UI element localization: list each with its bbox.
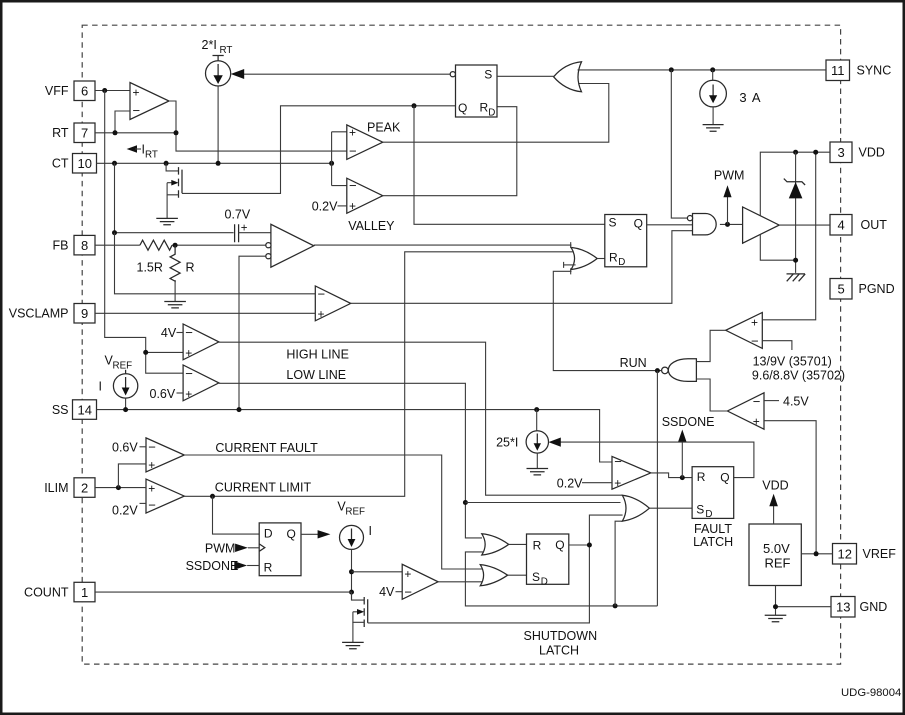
svg-text:CURRENT FAULT: CURRENT FAULT (215, 441, 318, 455)
node COUNT pin junction (349, 590, 354, 595)
svg-text:+: + (404, 567, 411, 581)
wire 4.5V output to nand (696, 379, 727, 411)
svg-text:13: 13 (836, 600, 850, 615)
wire G3 output to latch SD (508, 574, 527, 576)
svg-text:−: − (614, 454, 622, 469)
wire COUNT pin (95, 591, 352, 593)
svg-text:S: S (484, 67, 492, 81)
svg-text:UDG-98004: UDG-98004 (841, 687, 901, 699)
zener diode D1 (784, 179, 805, 199)
svg-text:LATCH: LATCH (539, 644, 579, 658)
svg-text:GND: GND (860, 600, 888, 614)
node VREF junction (814, 551, 819, 556)
svg-text:+: + (349, 125, 356, 139)
svg-text:0.6V: 0.6V (150, 387, 176, 401)
wire PWM latch Q to AND (647, 224, 693, 226)
svg-text:−: − (318, 286, 326, 301)
wire G2 lower input from RUN net (465, 552, 657, 606)
op-amp U3 error amplifier (266, 224, 314, 267)
svg-text:0.6V: 0.6V (112, 441, 138, 455)
node CT-mosfet junction (164, 161, 169, 166)
wire 13/9V - stub (762, 341, 792, 350)
svg-text:−: − (133, 103, 141, 118)
svg-text:HIGH LINE: HIGH LINE (286, 348, 349, 362)
current source VREF I (soft start charge) (99, 354, 138, 410)
svg-text:SSDONE: SSDONE (662, 415, 715, 429)
svg-text:R: R (480, 100, 489, 114)
svg-text:PGND: PGND (859, 282, 895, 296)
svg-text:6: 6 (81, 84, 88, 99)
wire zener branch (795, 152, 797, 273)
node latch-Q net junction (412, 103, 417, 108)
transistor Q2 count discharge MOSFET (352, 592, 368, 642)
current source 3uA (700, 70, 761, 125)
svg-text:+: + (349, 199, 356, 213)
node VFF junction (102, 88, 107, 93)
label IRT current arrow (127, 143, 158, 161)
svg-text:R: R (697, 470, 706, 484)
node RUN-faultOR junction (613, 603, 618, 608)
wire Q2 gate from shutdown latch (368, 545, 590, 623)
latch U5 shutdown latch (527, 534, 569, 588)
ground below Q1 (156, 218, 178, 224)
wire G2 output to latch R (509, 543, 527, 545)
svg-text:2*I: 2*I (202, 38, 217, 52)
wire RUN vertical to bottom nets (656, 371, 658, 606)
svg-text:VREF: VREF (863, 547, 897, 561)
svg-text:PWM: PWM (714, 168, 745, 182)
svg-text:R: R (533, 539, 542, 553)
node cap line junction (112, 230, 117, 235)
node count cap node (349, 569, 354, 574)
wire VSCLAMP output to output AND gate (351, 231, 693, 304)
wire 13/9V output to nand (696, 330, 725, 361)
wire PEAK output to sync OR (383, 84, 609, 143)
pin GND 13 (831, 597, 887, 618)
wire 4.5V - stub (764, 400, 779, 402)
pin COUNT 1 (24, 582, 95, 602)
svg-text:D: D (264, 527, 273, 541)
pin VREF 12 (833, 544, 897, 565)
wire 2*IRT control from oscillator latch Qbar (243, 73, 450, 75)
svg-text:CURRENT LIMIT: CURRENT LIMIT (215, 481, 312, 495)
pin SYNC 11 (826, 60, 891, 81)
comparator CURRENT LIMIT (146, 479, 184, 513)
node shutdown Q junction (587, 543, 592, 548)
wire fault latch Qbar to 25*I (560, 442, 754, 478)
wire cap to error amp + (239, 232, 271, 234)
gate G7 output AND (3 input) (687, 214, 716, 235)
OR gate G1 (sync set, points left) (554, 62, 582, 92)
op-amp U1 (VFF amplifier) (130, 83, 169, 120)
node HIGH/LOW divider junction (143, 350, 148, 355)
pin ILIM 2 (44, 478, 95, 498)
ground below Q2 (342, 642, 364, 648)
svg-text:LOW LINE: LOW LINE (286, 368, 346, 382)
svg-text:RT: RT (220, 45, 233, 56)
svg-text:0.2V: 0.2V (557, 476, 583, 490)
wire R to ground (174, 280, 176, 301)
svg-text:RUN: RUN (620, 356, 647, 370)
svg-text:2: 2 (81, 480, 88, 495)
tick marks on G6 inputs (564, 242, 571, 274)
svg-text:+: + (133, 86, 140, 100)
svg-text:S: S (609, 216, 617, 230)
wire ILIM to current fault + (118, 464, 146, 488)
svg-text:3 A: 3 A (739, 90, 760, 105)
svg-text:R: R (264, 560, 273, 574)
wire Q1 gate from oscillator latch Q (182, 106, 456, 194)
wire VFF pin to op-amp (95, 90, 130, 92)
comparator PEAK (347, 125, 383, 159)
wire VDD rail (760, 152, 830, 260)
svg-text:SSDONE: SSDONE (186, 559, 239, 573)
svg-text:+: + (148, 481, 155, 495)
svg-text:SS: SS (52, 403, 69, 417)
node CT-2IRT junction (216, 161, 221, 166)
current source 25*I (496, 410, 548, 469)
wire op-amp output down to RT and PEAK threshold (169, 101, 347, 151)
svg-text:D: D (488, 107, 495, 118)
svg-text:−: − (753, 394, 761, 409)
wire REF ground to pin 13 (776, 586, 832, 616)
svg-text:VFF: VFF (45, 84, 69, 98)
wire G1 output to latch S (497, 75, 554, 77)
capacitor 0.7V offset (225, 208, 251, 243)
wire CT sense down to VSCLAMP comparator (115, 233, 316, 294)
ground below 3uA (703, 125, 724, 132)
svg-text:5.0V: 5.0V (763, 541, 790, 556)
wire VFF sense vertical to HIGH/LOW LINE comparators (105, 91, 183, 374)
wire CURRENT LIMIT output to PWM OR (184, 252, 573, 496)
wire G6 stub input (564, 264, 576, 266)
wire divider node to error amp input (172, 244, 266, 246)
svg-text:1.5R: 1.5R (137, 261, 163, 275)
svg-text:10: 10 (78, 156, 92, 171)
node RUN junction (655, 368, 660, 373)
ground below REF (765, 615, 787, 621)
svg-text:12: 12 (838, 547, 852, 562)
wire RUN net to fault OR lower input (615, 521, 623, 606)
svg-text:SHUTDOWN: SHUTDOWN (524, 629, 598, 643)
node SS-VREFI junction (123, 407, 128, 412)
pin SS 14 (52, 400, 97, 420)
svg-text:FB: FB (53, 238, 69, 252)
svg-text:SYNC: SYNC (857, 64, 892, 78)
svg-text:VALLEY: VALLEY (348, 219, 395, 233)
svg-text:25*I: 25*I (496, 436, 518, 450)
wire FB pin to divider (95, 244, 140, 246)
node PWM branch junction (725, 222, 730, 227)
ground below 25*I (527, 469, 549, 475)
svg-text:−: − (185, 325, 193, 340)
svg-text:Q: Q (555, 538, 564, 552)
wire CURRENT FAULT output to shutdown OR (184, 455, 482, 569)
buffer U8 output driver (743, 207, 780, 243)
svg-text:OUT: OUT (861, 218, 888, 232)
svg-text:8: 8 (81, 238, 88, 253)
wire count node to 4V comparator (352, 571, 403, 573)
svg-text:REF: REF (113, 361, 133, 372)
pin OUT 4 (830, 215, 887, 236)
svg-text:+: + (318, 307, 325, 321)
wire HIGH LINE output to fault OR (219, 342, 623, 495)
svg-text:Q: Q (287, 527, 296, 541)
svg-text:LATCH: LATCH (693, 535, 733, 549)
svg-text:D: D (541, 577, 548, 588)
wire LOW LINE output down (219, 383, 482, 538)
latch U6 fault latch (692, 467, 734, 520)
svg-text:4V: 4V (161, 326, 177, 340)
pin PGND 5 (830, 279, 895, 300)
current source 2*IRT (202, 38, 233, 86)
svg-text:+: + (753, 414, 760, 428)
node LOW LINE / fault net junction (463, 500, 468, 505)
svg-text:14: 14 (78, 402, 92, 417)
comparator HIGH LINE (183, 324, 219, 360)
pin CT 10 (52, 154, 97, 174)
svg-text:−: − (148, 497, 156, 512)
node driver return junction (793, 258, 798, 263)
wire 4.5V + input from VREF (764, 421, 816, 554)
wire SYNC down to AND inverted input (671, 70, 687, 218)
wire comparator output to fault latch R (651, 473, 692, 478)
node RT-output junction (174, 130, 179, 135)
node VDD-monitor junction (813, 150, 818, 155)
node current limit to D flip-flop junction (210, 494, 215, 499)
svg-text:−: − (751, 334, 759, 349)
wire 13/9V + input from VDD (762, 152, 815, 320)
wire error amp output to PWM OR (314, 244, 572, 246)
wire current limit to D input (213, 496, 260, 534)
node SSDONE junction (680, 475, 685, 480)
wire VSCLAMP pin to comparator (95, 312, 315, 314)
svg-text:7: 7 (81, 126, 88, 141)
node SS-erroramp junction (237, 407, 242, 412)
svg-text:FAULT: FAULT (694, 522, 732, 536)
svg-text:5: 5 (838, 282, 845, 297)
comparator CURRENT FAULT (146, 438, 184, 472)
svg-text:0.2V: 0.2V (112, 504, 138, 518)
wire G6 output to PWM latch RD (597, 258, 605, 260)
pin VSCLAMP 9 (9, 304, 95, 324)
wire 2*IRT source to CT node (217, 86, 219, 163)
resistor R (170, 245, 180, 281)
IC dashed boundary (82, 25, 840, 664)
wire 4V comp output to shutdown OR2 (438, 581, 483, 583)
svg-text:D: D (618, 257, 625, 268)
svg-text:R: R (186, 261, 195, 275)
svg-text:I: I (99, 380, 102, 394)
svg-text:−: − (349, 178, 357, 193)
pin VDD 3 (830, 142, 885, 163)
node ILIM junction (116, 485, 121, 490)
flip-flop U4 count D-FF (259, 523, 301, 576)
svg-text:REF: REF (765, 556, 791, 571)
svg-text:I: I (369, 524, 372, 538)
comparator 4V count (402, 564, 438, 599)
OR gate G4 fault (4 input) (622, 495, 649, 521)
svg-text:Q: Q (634, 216, 643, 230)
current source VREF I (count) (337, 500, 372, 601)
arrowhead into 2*IRT (231, 69, 245, 79)
wire G4 output to fault latch SD (649, 507, 692, 509)
node SYNC-3uA junction (710, 67, 715, 72)
wire op-amp inverting input to RT (115, 111, 130, 133)
svg-text:D: D (705, 509, 712, 520)
svg-text:9: 9 (81, 306, 88, 321)
svg-text:RT: RT (52, 126, 69, 140)
node RT-inv junction (113, 130, 118, 135)
wire fault net to fault OR (465, 502, 620, 504)
svg-text:S: S (696, 502, 704, 516)
svg-text:−: − (349, 144, 357, 159)
latch U2 oscillator SR latch (450, 65, 497, 118)
node GND junction (773, 604, 778, 609)
svg-text:Q: Q (720, 471, 729, 485)
pin FB 8 (53, 235, 95, 255)
resistor 1.5R (140, 240, 172, 250)
node SS-25I junction (534, 407, 539, 412)
svg-text:0.7V: 0.7V (225, 208, 251, 222)
wire VREF output to pin 12 (801, 553, 832, 555)
node FB divider junction (173, 243, 178, 248)
svg-text:0.2V: 0.2V (312, 199, 338, 213)
wire error amp soft-start input to SS (239, 256, 266, 409)
node CT-comparators junction (329, 161, 334, 166)
node SYNC-AND junction (669, 67, 674, 72)
svg-text:CT: CT (52, 157, 69, 171)
svg-text:3: 3 (838, 145, 845, 160)
node VDD-zener junction (793, 150, 798, 155)
transistor Q1 CT discharge MOSFET (166, 163, 182, 218)
wire HIGH LINE + input branch (146, 351, 183, 353)
svg-text:VSCLAMP: VSCLAMP (9, 307, 69, 321)
wire RT pin (95, 132, 176, 134)
svg-text:RT: RT (145, 150, 158, 161)
comparator LOW LINE (183, 365, 219, 401)
svg-text:13/9V (35701): 13/9V (35701) (753, 355, 832, 369)
gate G5 RUN nand (points left) (662, 359, 697, 382)
svg-text:REF: REF (345, 507, 365, 518)
svg-text:PEAK: PEAK (367, 121, 401, 135)
svg-text:4: 4 (838, 218, 845, 233)
svg-text:S: S (532, 570, 540, 584)
OR gate G6 pwm reset (4 input) (571, 247, 597, 269)
OR gate G3 shutdown SD (480, 565, 507, 586)
svg-text:Q: Q (458, 101, 467, 115)
svg-text:+: + (185, 346, 192, 360)
pin VFF 6 (45, 81, 95, 101)
wire CT feedforward to 0.7V capacitor (115, 163, 234, 232)
ground below R (164, 302, 186, 308)
latch U7 PWM latch (605, 215, 647, 268)
comparator 4.5V vref monitor (points left) (727, 393, 764, 429)
svg-text:VDD: VDD (762, 478, 788, 492)
comparator 0.2V ssdone (612, 456, 651, 489)
wire driver output to OUT pin (779, 224, 830, 226)
svg-text:ILIM: ILIM (44, 481, 68, 495)
pin RT 7 (52, 123, 95, 143)
svg-text:9.6/8.8V (35702): 9.6/8.8V (35702) (752, 368, 845, 382)
wire Q output arrow to I source (301, 533, 318, 535)
svg-text:R: R (609, 250, 618, 264)
comparator VSCLAMP (315, 286, 350, 321)
svg-text:+: + (148, 458, 155, 472)
wire CT pin (97, 162, 332, 164)
svg-text:−: − (148, 439, 156, 454)
wire SS pin line (97, 410, 613, 462)
svg-text:+: + (185, 387, 192, 401)
wire shutdown latch Q to fault OR (569, 515, 623, 545)
arrowhead into 25*I (549, 438, 561, 447)
block 5.0V REF (749, 524, 801, 586)
OR gate G2 shutdown R (482, 534, 509, 555)
svg-text:4V: 4V (379, 585, 395, 599)
wire VALLEY output to latch RD (383, 107, 517, 196)
wire SYNC line (578, 69, 827, 71)
svg-text:11: 11 (831, 63, 845, 78)
svg-text:COUNT: COUNT (24, 585, 69, 599)
wire RUN output (553, 271, 661, 370)
svg-text:VDD: VDD (859, 146, 885, 160)
wire ILIM pin (95, 487, 146, 489)
svg-text:+: + (614, 476, 621, 490)
comparator VALLEY (347, 178, 383, 213)
svg-text:−: − (185, 366, 193, 381)
wire AND output to driver (720, 223, 743, 225)
svg-text:1: 1 (81, 585, 88, 600)
svg-text:4.5V: 4.5V (783, 394, 809, 408)
comparator 13/9V vdd monitor (points left) (726, 313, 763, 349)
node CT-cap junction (112, 161, 117, 166)
chassis ground (PGND) (787, 274, 806, 281)
wire latch Q net down to PWM latch S input (414, 106, 605, 225)
svg-text:−: − (404, 584, 412, 599)
svg-text:PWM: PWM (205, 541, 236, 555)
wire CT to PEAK+ and VALLEY- (332, 132, 347, 186)
svg-text:+: + (751, 316, 758, 330)
